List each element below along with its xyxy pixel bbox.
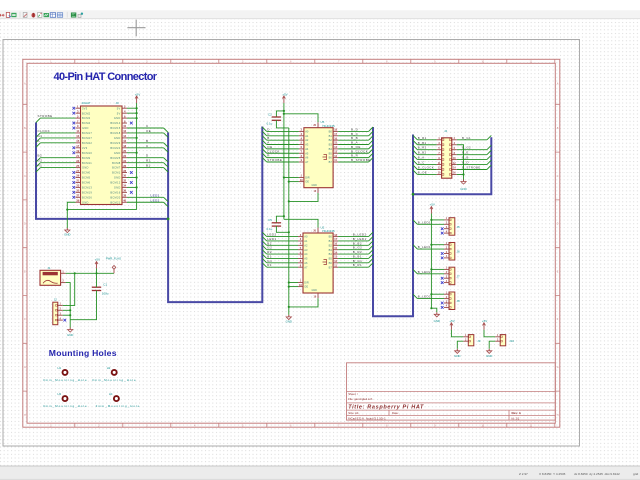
wire +5V to J10 pin1 bbox=[484, 330, 495, 337]
svg-text:BCM21: BCM21 bbox=[110, 200, 120, 204]
svg-text:BCM25: BCM25 bbox=[110, 156, 120, 160]
svg-text:38: 38 bbox=[123, 194, 126, 198]
svg-text:BCM9: BCM9 bbox=[82, 156, 91, 160]
svg-text:B_R1: B_R1 bbox=[353, 263, 362, 267]
IC U2 direction glyph bbox=[323, 260, 327, 265]
connector J7 body bbox=[449, 267, 455, 285]
svg-text:Sheet: /: Sheet: / bbox=[348, 392, 358, 396]
mounting hole H3 bbox=[63, 396, 68, 401]
svg-text:34: 34 bbox=[123, 184, 126, 188]
wire to U2 VCC pin bbox=[284, 219, 318, 227]
svg-text:Date:: Date: bbox=[392, 411, 399, 415]
svg-text:10: 10 bbox=[123, 124, 126, 128]
svg-text:G: G bbox=[557, 367, 559, 369]
toolbar strip bbox=[0, 10, 640, 19]
connector J3 left no-connects bbox=[72, 107, 75, 199]
svg-text:BCM4: BCM4 bbox=[82, 121, 91, 125]
svg-text:25: 25 bbox=[76, 164, 79, 168]
svg-text:C: C bbox=[146, 144, 149, 148]
+5V/GND rail vertical bbox=[430, 214, 432, 309]
ground symbol rail bbox=[436, 312, 438, 314]
connector J9 pins bbox=[463, 335, 470, 342]
svg-text:C: C bbox=[146, 124, 149, 128]
connector J4 body bbox=[442, 138, 452, 178]
svg-text:BCM6: BCM6 bbox=[82, 181, 91, 185]
svg-text:BCM26: BCM26 bbox=[82, 195, 92, 199]
svg-text:B: B bbox=[146, 139, 148, 143]
power +5V symbol J1 bbox=[96, 262, 98, 269]
svg-text:A0: A0 bbox=[305, 130, 309, 134]
svg-text:C1: C1 bbox=[103, 283, 107, 287]
capacitor C1 bbox=[92, 286, 101, 288]
svg-text:H2: H2 bbox=[107, 366, 111, 370]
junction bbox=[69, 314, 71, 316]
svg-text:B_R1: B_R1 bbox=[418, 136, 427, 140]
svg-text:A3: A3 bbox=[305, 143, 309, 147]
svg-text:19: 19 bbox=[76, 149, 79, 153]
toolbar icon pcbnew bbox=[71, 13, 76, 18]
svg-text:B_OE: B_OE bbox=[418, 170, 427, 174]
svg-text:BCM8: BCM8 bbox=[112, 161, 121, 165]
svg-text:15: 15 bbox=[76, 139, 79, 143]
toolbar icon erc bug bbox=[32, 13, 36, 18]
svg-text:Mounting Holes: Mounting Holes bbox=[49, 348, 117, 358]
svg-text:B6: B6 bbox=[329, 156, 333, 160]
ground symbol J1 bbox=[69, 328, 71, 330]
power +5V symbol rail bbox=[430, 207, 432, 214]
svg-text:GND: GND bbox=[286, 320, 292, 324]
svg-text:B0: B0 bbox=[329, 235, 333, 239]
svg-text:A1: A1 bbox=[304, 239, 308, 243]
svg-text:BCM15: BCM15 bbox=[110, 126, 120, 130]
wire J1 pin2 to ground rail bbox=[66, 283, 71, 328]
svg-text:31: 31 bbox=[76, 179, 79, 183]
svg-text:B_A: B_A bbox=[418, 156, 425, 160]
wire J9 pin2 to ground bbox=[457, 341, 463, 349]
connector J4 right wires to bus bbox=[457, 135, 492, 169]
mounting hole H2 bbox=[112, 370, 117, 375]
wire gnd horizontal bbox=[67, 209, 136, 211]
connector J5 body bbox=[449, 218, 455, 236]
svg-text:B4: B4 bbox=[329, 147, 333, 151]
svg-text:J7: J7 bbox=[457, 274, 461, 278]
svg-text:A5: A5 bbox=[304, 257, 308, 261]
connector J5 no-connects bbox=[441, 227, 444, 234]
svg-text:grid: grid bbox=[633, 472, 638, 476]
junction bbox=[288, 200, 290, 202]
svg-text:40-Pin HAT Connector: 40-Pin HAT Connector bbox=[54, 71, 158, 83]
svg-text:D: D bbox=[146, 154, 149, 158]
mounting hole H4 bbox=[114, 396, 119, 401]
svg-text:A4: A4 bbox=[304, 252, 308, 256]
svg-text:B7: B7 bbox=[329, 265, 333, 269]
connector J8 body bbox=[449, 292, 455, 310]
svg-text:LED2: LED2 bbox=[151, 198, 160, 202]
svg-text:File: gamingled.sch: File: gamingled.sch bbox=[348, 397, 373, 401]
svg-text:+5V: +5V bbox=[482, 319, 487, 323]
svg-text:BCM18: BCM18 bbox=[110, 131, 120, 135]
svg-text:100u: 100u bbox=[102, 292, 109, 296]
connector J1 barrel jack body bbox=[40, 270, 61, 285]
ground symbol J10 bbox=[488, 349, 490, 351]
connector J8 pins bbox=[444, 293, 451, 309]
svg-text:GND: GND bbox=[82, 126, 89, 130]
svg-text:LED1: LED1 bbox=[151, 193, 160, 197]
svg-text:B1: B1 bbox=[146, 164, 151, 168]
svg-text:B_E: B_E bbox=[462, 151, 469, 155]
junction bbox=[288, 281, 290, 283]
toolbar icon new bbox=[0, 14, 5, 16]
svg-text:B_CLOCK: B_CLOCK bbox=[418, 166, 434, 170]
svg-text:+5V: +5V bbox=[429, 203, 434, 207]
connector J9 body bbox=[468, 335, 474, 346]
svg-text:22: 22 bbox=[123, 154, 126, 158]
bus junction bbox=[412, 193, 415, 196]
svg-text:A1: A1 bbox=[305, 134, 309, 138]
connector J6 pins bbox=[444, 243, 451, 259]
svg-text:G1: G1 bbox=[38, 134, 43, 138]
svg-text:B_R2: B_R2 bbox=[418, 146, 427, 150]
connector J1 pins bbox=[61, 270, 66, 282]
svg-text:BCM0: BCM0 bbox=[82, 171, 91, 175]
svg-text:3V3: 3V3 bbox=[82, 106, 88, 110]
wire J7 pin2 label from bus bbox=[413, 269, 417, 273]
svg-text:B3: B3 bbox=[329, 143, 333, 147]
svg-text:OE: OE bbox=[305, 180, 309, 184]
wire J8 pin2 label from bus bbox=[413, 294, 417, 298]
wire J2 pin3 bbox=[63, 314, 70, 316]
svg-text:A6: A6 bbox=[305, 156, 309, 160]
wire J5 pin1 to +5V rail bbox=[431, 219, 444, 221]
svg-text:B_LED2: B_LED2 bbox=[418, 295, 431, 299]
svg-text:B_B: B_B bbox=[462, 156, 469, 160]
svg-text:16: 16 bbox=[123, 139, 126, 143]
svg-text:BCM5: BCM5 bbox=[82, 176, 91, 180]
wire C1 bottom to ground bbox=[70, 291, 96, 320]
svg-text:23: 23 bbox=[76, 159, 79, 163]
svg-text:OE: OE bbox=[146, 129, 151, 133]
svg-text:A6: A6 bbox=[304, 261, 308, 265]
svg-text:26: 26 bbox=[123, 164, 126, 168]
wire U2 OE to rail bbox=[289, 286, 298, 288]
wire C1 top bbox=[96, 273, 98, 287]
connector J10 body bbox=[500, 335, 506, 346]
svg-text:+5V: +5V bbox=[135, 92, 140, 96]
IC U5 pins bbox=[299, 122, 338, 193]
svg-text:GND: GND bbox=[82, 200, 89, 204]
svg-text:X 8.8450 Y 4.2545: X 8.8450 Y 4.2545 bbox=[539, 472, 566, 476]
svg-text:35: 35 bbox=[76, 189, 79, 193]
svg-text:14: 14 bbox=[123, 134, 126, 138]
svg-text:GND: GND bbox=[82, 166, 89, 170]
connector J10 pins bbox=[495, 335, 502, 342]
svg-text:30: 30 bbox=[123, 174, 126, 178]
svg-text:A4: A4 bbox=[305, 147, 309, 151]
svg-text:GND: GND bbox=[114, 136, 121, 140]
junction bbox=[283, 110, 285, 112]
junction bbox=[74, 272, 76, 274]
IC U2 right wires to bus bbox=[338, 232, 373, 267]
junction bbox=[283, 176, 285, 178]
capacitor C5 bbox=[272, 222, 281, 224]
svg-text:GND: GND bbox=[311, 184, 317, 187]
svg-text:GND: GND bbox=[460, 187, 466, 191]
junction bbox=[283, 113, 285, 115]
svg-text:B2: B2 bbox=[329, 243, 333, 247]
connector J8 no-connects bbox=[441, 302, 444, 309]
status bar bbox=[0, 466, 640, 480]
svg-text:B_B2: B_B2 bbox=[418, 151, 427, 155]
power +5V symbol bbox=[136, 96, 138, 103]
svg-text:J4: J4 bbox=[444, 129, 448, 133]
svg-text:B5: B5 bbox=[329, 257, 333, 261]
svg-text:A7: A7 bbox=[304, 265, 308, 269]
wire to U5 VCC pin bbox=[284, 114, 318, 123]
svg-text:B_C: B_C bbox=[418, 161, 425, 165]
junction bbox=[430, 244, 432, 246]
no-connect J2 pin4 bbox=[63, 319, 66, 322]
svg-text:17: 17 bbox=[76, 144, 79, 148]
svg-text:5V: 5V bbox=[117, 111, 121, 115]
sheet frame inner border bbox=[27, 63, 555, 423]
svg-text:Rev: A: Rev: A bbox=[512, 411, 522, 415]
svg-text:A2: A2 bbox=[305, 138, 309, 142]
junction bbox=[283, 215, 285, 217]
svg-text:+5V: +5V bbox=[95, 258, 100, 262]
IC U5 left wires from bus bbox=[262, 127, 299, 162]
connector J3 power rail right bbox=[136, 103, 138, 210]
wire J7 pin1 to +5V rail bbox=[431, 268, 444, 270]
menu bar strip bbox=[0, 0, 640, 10]
svg-text:12: 12 bbox=[123, 129, 126, 133]
svg-text:BCM20: BCM20 bbox=[110, 195, 120, 199]
svg-text:OE: OE bbox=[304, 285, 308, 289]
junction bbox=[430, 219, 432, 221]
+5V rail vertical bbox=[283, 103, 285, 219]
svg-text:B_G1: B_G1 bbox=[462, 136, 471, 140]
title block frame bbox=[347, 363, 556, 420]
svg-text:0.1u: 0.1u bbox=[267, 227, 273, 231]
svg-text:B1: B1 bbox=[329, 239, 333, 243]
svg-text:GND: GND bbox=[454, 354, 460, 358]
connector J1 tip arc bbox=[43, 280, 58, 283]
wire U2 DIR to rail bbox=[289, 282, 298, 284]
svg-text:BCM11: BCM11 bbox=[82, 161, 92, 165]
svg-text:GND: GND bbox=[486, 354, 492, 358]
connector J3 right label wires to bus bbox=[127, 124, 168, 172]
svg-text:BCM13: BCM13 bbox=[82, 186, 92, 190]
junction bbox=[288, 181, 290, 183]
toolbar icon bom bbox=[57, 13, 62, 18]
ground symbol J4 bbox=[463, 180, 465, 182]
svg-text:74HC245: 74HC245 bbox=[322, 229, 335, 233]
wire J2 pin2 bbox=[63, 309, 70, 311]
wire C2 to ground rail bbox=[276, 120, 288, 128]
bus left U-channel bbox=[36, 123, 168, 219]
IC U2 body bbox=[303, 233, 333, 293]
svg-text:H1: H1 bbox=[58, 366, 62, 370]
svg-text:G: G bbox=[24, 367, 26, 369]
svg-text:BCM19: BCM19 bbox=[82, 190, 92, 194]
connector J1 inner sleeve bar bbox=[43, 272, 58, 275]
svg-text:A0: A0 bbox=[304, 235, 308, 239]
connector J4 ground wires bbox=[457, 145, 464, 180]
connector J6 body bbox=[449, 243, 455, 261]
svg-text:KiCad E.D.A. kicad (5.1.10)-1: KiCad E.D.A. kicad (5.1.10)-1 bbox=[348, 416, 386, 420]
power +5V symbol middle bbox=[283, 96, 285, 103]
svg-text:B4: B4 bbox=[329, 252, 333, 256]
svg-text:BCM17: BCM17 bbox=[82, 131, 92, 135]
svg-text:G2: G2 bbox=[38, 159, 43, 163]
connector J7 no-connects bbox=[441, 277, 444, 284]
svg-text:BCM24: BCM24 bbox=[110, 146, 120, 150]
svg-text:27: 27 bbox=[76, 169, 79, 173]
svg-text:32: 32 bbox=[123, 179, 126, 183]
toolbar icon open bbox=[6, 12, 11, 17]
svg-text:BCM1: BCM1 bbox=[112, 171, 121, 175]
wire +5V stem bbox=[96, 269, 98, 274]
power flag symbol bbox=[113, 269, 115, 273]
svg-text:A2: A2 bbox=[304, 243, 308, 247]
svg-text:GND: GND bbox=[67, 333, 73, 337]
svg-text:11: 11 bbox=[76, 129, 79, 133]
toolbar separator bbox=[19, 12, 21, 18]
page boundary bbox=[3, 40, 580, 447]
wire J8 pin1 to +5V rail bbox=[431, 293, 444, 295]
svg-text:13: 13 bbox=[76, 134, 79, 138]
svg-text:BCM14: BCM14 bbox=[110, 121, 120, 125]
svg-text:3mm_Mounting_Hole: 3mm_Mounting_Hole bbox=[92, 378, 137, 382]
svg-text:B6: B6 bbox=[329, 261, 333, 265]
toolbar icon paste bbox=[23, 12, 27, 17]
svg-text:40HAT: 40HAT bbox=[82, 101, 91, 105]
svg-text:J5: J5 bbox=[457, 225, 461, 229]
connector J5 pins bbox=[444, 218, 451, 234]
svg-text:B_LED2: B_LED2 bbox=[418, 270, 431, 274]
rail bottom wire to ground bbox=[431, 308, 436, 312]
svg-text:29: 29 bbox=[76, 174, 79, 178]
svg-text:21: 21 bbox=[76, 154, 79, 158]
svg-text:CLOCK: CLOCK bbox=[38, 129, 51, 133]
toolbar separator bbox=[66, 12, 68, 18]
svg-text:33: 33 bbox=[76, 184, 79, 188]
svg-text:BCM10: BCM10 bbox=[82, 151, 92, 155]
junction bbox=[288, 306, 290, 308]
svg-text:B2: B2 bbox=[329, 138, 333, 142]
svg-text:STROBE: STROBE bbox=[38, 114, 53, 118]
svg-text:3mm_Mounting_Hole: 3mm_Mounting_Hole bbox=[43, 378, 88, 382]
svg-text:C5: C5 bbox=[268, 218, 272, 222]
svg-text:B_LED1: B_LED1 bbox=[418, 220, 431, 224]
svg-text:B3: B3 bbox=[329, 248, 333, 252]
svg-text:Z 2.97: Z 2.97 bbox=[519, 472, 528, 476]
svg-text:B_D: B_D bbox=[462, 161, 469, 165]
wire J6 pin2 label from bus bbox=[413, 245, 417, 249]
svg-text:J2: J2 bbox=[54, 298, 58, 302]
toolbar icon table bbox=[50, 13, 55, 18]
svg-text:GND: GND bbox=[114, 116, 121, 120]
junction bbox=[69, 309, 71, 311]
svg-text:+5V: +5V bbox=[282, 92, 287, 96]
svg-text:3mm_Mounting_Hole: 3mm_Mounting_Hole bbox=[96, 404, 141, 408]
svg-text:0.1u: 0.1u bbox=[267, 121, 273, 125]
svg-text:3V3: 3V3 bbox=[82, 146, 88, 150]
svg-text:18: 18 bbox=[123, 144, 126, 148]
svg-text:BCM3: BCM3 bbox=[82, 116, 91, 120]
svg-text:74HC245: 74HC245 bbox=[322, 124, 335, 128]
svg-text:H4: H4 bbox=[109, 392, 113, 396]
IC U2 left wires from bus bbox=[262, 232, 298, 267]
svg-text:STROBE: STROBE bbox=[267, 158, 282, 162]
wire U2 GND pin down bbox=[289, 298, 318, 307]
svg-text:GND: GND bbox=[114, 151, 121, 155]
svg-text:A5: A5 bbox=[305, 151, 309, 155]
junction bbox=[430, 293, 432, 295]
svg-text:20: 20 bbox=[123, 149, 126, 153]
svg-text:GND: GND bbox=[64, 233, 70, 237]
svg-text:R2: R2 bbox=[146, 159, 151, 163]
IC U5 body bbox=[304, 128, 333, 188]
svg-text:PWR_FLAG: PWR_FLAG bbox=[106, 257, 121, 261]
wire C5 to ground rail bbox=[276, 226, 288, 232]
frame zone labels bbox=[24, 62, 559, 428]
svg-text:J8: J8 bbox=[457, 299, 461, 303]
wire J1 pin1 +5V net bbox=[66, 272, 114, 274]
svg-text:Title: Raspberry Pi HAT: Title: Raspberry Pi HAT bbox=[348, 404, 424, 410]
svg-text:28: 28 bbox=[123, 169, 126, 173]
mounting hole H1 bbox=[63, 370, 68, 375]
connector J4 left wires from bus bbox=[413, 135, 437, 174]
toolbar icon netlist bbox=[38, 12, 42, 17]
IC U2 pins bbox=[298, 228, 338, 299]
svg-text:H3: H3 bbox=[58, 392, 62, 396]
connector J6 no-connects bbox=[441, 252, 444, 259]
wire J10 pin2 to ground bbox=[489, 341, 495, 349]
svg-text:BCM7: BCM7 bbox=[112, 166, 121, 170]
ground symbol J9 bbox=[456, 349, 458, 351]
wire +5V to J9 pin1 bbox=[451, 330, 463, 337]
svg-text:BCM27: BCM27 bbox=[82, 136, 92, 140]
svg-text:J10: J10 bbox=[509, 339, 514, 343]
svg-text:3mm_Mounting_Hole: 3mm_Mounting_Hole bbox=[43, 404, 88, 408]
sheet frame outer border bbox=[23, 59, 560, 427]
svg-text:A7: A7 bbox=[305, 160, 309, 164]
connector J3 pins bbox=[76, 104, 128, 204]
connector J3 right power pin wires bbox=[127, 107, 138, 188]
svg-text:B5: B5 bbox=[329, 151, 333, 155]
svg-text:B_STROBE: B_STROBE bbox=[462, 166, 481, 170]
connector J3 LED wires bbox=[127, 193, 168, 206]
svg-text:BCM22: BCM22 bbox=[82, 141, 92, 145]
junction bbox=[430, 307, 432, 309]
svg-text:B2: B2 bbox=[38, 154, 43, 158]
svg-text:R1: R1 bbox=[267, 263, 272, 267]
wire U5 GND pin down bbox=[289, 193, 318, 201]
svg-text:GND: GND bbox=[114, 176, 121, 180]
svg-text:39: 39 bbox=[76, 198, 79, 202]
svg-text:BCM23: BCM23 bbox=[110, 141, 120, 145]
wire U5 DIR to +5V rail bbox=[284, 177, 299, 179]
svg-text:B0: B0 bbox=[329, 130, 333, 134]
toolbar icon footprint match bbox=[78, 13, 83, 18]
connector J3 left wires to bus bbox=[36, 114, 76, 172]
svg-text:Id: 1/1: Id: 1/1 bbox=[512, 416, 520, 420]
svg-text:+5V: +5V bbox=[449, 319, 454, 323]
svg-text:dx 8.8450 dy 4.2545 dist 9.8: dx 8.8450 dy 4.2545 dist 9.8142 bbox=[574, 472, 620, 476]
svg-text:B7: B7 bbox=[329, 160, 333, 164]
wire to capacitor C2 bbox=[276, 111, 284, 117]
svg-text:B_B1: B_B1 bbox=[418, 141, 427, 145]
